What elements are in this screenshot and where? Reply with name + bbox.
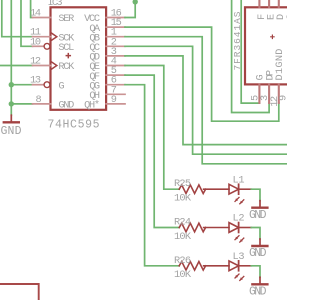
svg-text:L3: L3 — [233, 251, 245, 263]
LED L1 — [229, 174, 251, 204]
wire G pin branch — [11, 84, 32, 86]
resistor R24 — [174, 217, 229, 243]
pin 13 G lead — [33, 84, 44, 86]
svg-text:GND: GND — [58, 100, 74, 112]
pin 12 RCK lead — [33, 65, 51, 67]
svg-text:SER: SER — [58, 13, 74, 25]
wire GND net vertical left — [10, 0, 12, 115]
wire VCC net — [125, 0, 135, 18]
svg-text:GND: GND — [249, 247, 267, 260]
ground symbol L3 bar — [252, 283, 267, 285]
wire SER net vertical — [31, 0, 33, 18]
svg-text:10: 10 — [30, 36, 41, 48]
svg-text:C: C — [285, 14, 287, 20]
pin 12 clock mark — [51, 61, 57, 70]
svg-text:9: 9 — [278, 95, 287, 101]
svg-text:GND: GND — [249, 209, 267, 222]
wire QC exits right — [125, 46, 287, 154]
svg-text:L1: L1 — [233, 174, 245, 186]
LED L2 — [229, 213, 251, 243]
svg-text:R26: R26 — [174, 255, 191, 267]
svg-text:IC3: IC3 — [48, 0, 63, 9]
svg-text:10K: 10K — [174, 231, 192, 243]
pin 13 G bubble — [44, 82, 50, 88]
pin 5 QF lead — [106, 74, 125, 76]
wire QF to R24 — [125, 75, 179, 227]
wire QD exits right — [125, 56, 287, 145]
pin 9 QH* lead unconnected — [106, 103, 125, 105]
ground symbol L2 bar — [252, 245, 267, 247]
svg-text:RCK: RCK — [58, 61, 75, 73]
svg-text:G: G — [58, 80, 64, 92]
wire display pin5 net — [241, 0, 259, 103]
display bottom pin 3 DP lead — [268, 84, 270, 103]
resistor R25 — [174, 178, 229, 204]
ground GND1 lead — [10, 115, 12, 121]
wire QB exits right — [125, 37, 287, 164]
svg-text:14: 14 — [30, 8, 41, 20]
IC3 origin cross — [66, 54, 70, 58]
pin 10 SCL bubble — [44, 43, 50, 49]
svg-text:GND: GND — [1, 125, 22, 138]
wire SCL net vertical — [21, 0, 33, 46]
junction dot node GND — [9, 101, 14, 106]
wire RCK net from left edge — [0, 65, 33, 67]
wire display pin3 net — [232, 0, 270, 113]
ground symbol L3 lead — [259, 277, 261, 283]
svg-text:GND: GND — [249, 286, 267, 299]
svg-text:R24: R24 — [174, 217, 191, 229]
display bottom pin 5 G lead — [258, 84, 260, 103]
svg-text:L2: L2 — [233, 213, 245, 225]
ground symbol L1 lead — [259, 201, 261, 207]
resistor R26 — [174, 255, 229, 281]
pin 4 QE lead — [106, 65, 125, 67]
svg-text:10K: 10K — [174, 193, 192, 205]
pin 6 QG lead — [106, 84, 125, 86]
svg-text:SCL: SCL — [58, 42, 74, 54]
pin 1 QB lead — [106, 36, 125, 38]
wire GND pin branch — [11, 103, 32, 105]
junction dot VCC — [133, 0, 138, 5]
svg-text:12: 12 — [30, 56, 41, 68]
wire QE to R25 — [125, 66, 179, 190]
display top pin F lead — [258, 0, 260, 7]
display top pin E lead — [268, 0, 270, 7]
pin 14 SER lead — [33, 17, 51, 19]
ground symbol L2 lead — [259, 239, 261, 245]
display top pin D lead — [278, 0, 280, 7]
wire L2 to ground — [251, 228, 260, 240]
ground symbol L1 bar — [252, 206, 267, 208]
svg-text:74HC595: 74HC595 — [48, 118, 100, 131]
svg-text:R25: R25 — [174, 178, 191, 190]
wire QA to display pin 12 — [125, 27, 279, 121]
wire SCK net vertical — [2, 0, 33, 37]
display bottom pin 12 D1GND lead — [278, 84, 280, 103]
pin 7 QH lead unconnected — [106, 93, 125, 95]
pin 16 VCC lead — [106, 17, 125, 19]
pin 2 QC lead — [106, 45, 125, 47]
junction dot node G — [9, 82, 14, 87]
display U2 box 7FR3641AS — [245, 7, 295, 84]
svg-text:D1GND: D1GND — [274, 49, 286, 81]
pin 11 SCK lead — [33, 36, 51, 38]
LED L3 — [229, 251, 251, 281]
pin 3 QD lead — [106, 55, 125, 57]
op IC3 box 74HC595 — [51, 7, 107, 110]
svg-text:13: 13 — [30, 75, 41, 87]
frame corner bottom left — [0, 284, 39, 300]
svg-text:QH*: QH* — [84, 100, 100, 112]
svg-text:7FR3641AS: 7FR3641AS — [232, 11, 243, 70]
svg-text:10K: 10K — [174, 269, 192, 281]
wire QG to R26 — [125, 85, 179, 266]
pin 15 QA lead — [106, 26, 125, 28]
wire L3 to ground — [251, 266, 260, 278]
ground GND1 bar — [4, 121, 19, 123]
wire L1 to ground — [251, 189, 260, 201]
svg-text:8: 8 — [36, 94, 42, 106]
pin 11 clock mark — [51, 32, 57, 41]
pin 8 GND lead — [33, 103, 51, 105]
pin 10 SCL lead — [33, 45, 44, 47]
display origin cross — [271, 35, 274, 38]
svg-text:9: 9 — [111, 94, 117, 106]
